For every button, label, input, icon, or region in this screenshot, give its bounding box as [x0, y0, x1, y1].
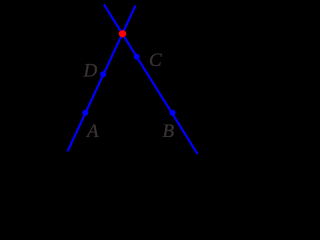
point B — [170, 110, 176, 116]
svg-text:A: A — [85, 121, 99, 142]
line through D and A — [68, 6, 136, 152]
point A — [82, 110, 88, 116]
svg-text:B: B — [163, 121, 175, 142]
point D — [100, 71, 106, 77]
line through C and B — [104, 5, 198, 155]
svg-text:C: C — [149, 50, 162, 71]
point C — [134, 54, 140, 60]
svg-text:D: D — [83, 60, 98, 81]
red intersection point — [119, 30, 126, 37]
